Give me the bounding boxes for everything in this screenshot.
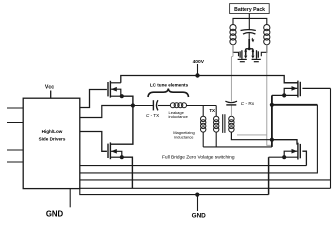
wire input stub 2 [7,122,23,124]
wire bus L1 [80,165,307,167]
node Q4 source [282,155,286,159]
svg-text:TX: TX [209,108,215,113]
transistor Q3 [272,81,300,98]
node right leg upper [270,103,274,107]
wire 400V rail [121,76,298,83]
wire input stub 1 [7,107,23,109]
battery pack box [230,4,270,14]
wire primary bottom [203,146,272,148]
node right leg lower [270,138,274,142]
wire Q2 source down to L4 [122,157,133,188]
wire battery top rail [233,18,267,25]
arrow current marker [252,38,254,42]
brace LC tune [148,89,189,97]
wire C-TX to leakage [158,105,170,107]
wire vcc stub [50,91,52,99]
node Q3 source [282,93,286,97]
svg-text:GND: GND [46,209,64,218]
inductor magnetizing [201,116,206,132]
wire rectifier center stem [248,33,250,39]
node A [131,103,135,107]
svg-text:High/Low: High/Low [42,129,63,134]
wire TX secondary top to C-Rx [230,105,232,116]
wire grey rx left column [231,44,233,101]
capacitor below right rectifier fet [252,58,261,60]
wire leakage to TX [187,105,217,107]
svg-text:GND: GND [192,213,207,220]
wire Q3 source bus [272,104,318,106]
node GND rail [195,193,199,197]
svg-text:Full Bridge Zero Volatge switc: Full Bridge Zero Volatge switching [162,155,235,161]
wire magnetizing stub [202,106,204,117]
inductor TX primary [214,116,219,132]
svg-text:LC tune elements: LC tune elements [150,83,189,88]
wire Q4 source down to rail B [268,157,270,194]
node Q2 source [120,155,124,159]
driver box [23,98,80,188]
wire TX secondary bottom [231,132,272,140]
wire input stub 4 [7,161,23,163]
inductor rectifier left coil [230,25,236,45]
wire Q2 gate [80,132,107,152]
wire grey rx bottom link [237,134,267,136]
svg-text:C - TX: C - TX [146,113,159,118]
svg-text:Side Drivers: Side Drivers [39,136,66,141]
wire bus L4 [80,187,331,189]
wire bus L3 [80,179,331,181]
wire right leg vertical [271,95,273,146]
capacitor C-TX [152,100,154,110]
svg-text:inductance: inductance [169,114,189,119]
wire node A to driver sense [80,106,133,118]
wire GND stem right [197,195,199,211]
wire magnetizing bottom [202,132,204,147]
wire GND stem left [69,189,71,208]
capacitor below left rectifier fet [238,58,247,60]
inductor TX secondary [229,116,234,132]
wire node A down to Q2 drain [110,106,132,145]
node 400V rail [195,73,199,77]
svg-text:Battery Pack: Battery Pack [234,7,265,13]
transistor Q4 [269,143,301,160]
inductor leakage [170,103,186,108]
svg-text:inductance: inductance [174,134,194,139]
wire Q3 gate [302,87,330,89]
wire rail B [80,189,269,195]
svg-text:Vcc: Vcc [45,85,54,91]
node Q1 source [120,94,124,98]
transformer core [223,114,225,133]
wire grey rx right column [267,44,272,145]
capacitor C-Rx [225,101,237,103]
wire 400V stub [197,64,199,76]
transistor rectifier right fet [249,44,267,58]
wire Q4 gate [302,151,306,165]
inductor rectifier right coil [264,25,270,45]
transistor rectifier left fet [233,44,249,58]
transistor Q1 [108,81,122,98]
wire TX primary top stub [215,106,217,117]
wire Q3 gate right vertical [330,88,332,188]
wire Q4 drain jog [272,140,297,145]
wire bus L2 [80,105,318,173]
wire TX primary bottom stub [215,132,217,147]
wire node A to C-TX [133,105,154,107]
wire Q1 gate [80,90,107,108]
svg-text:C - Rx: C - Rx [241,101,255,106]
svg-text:400V: 400V [193,59,205,65]
wire battery stem [248,14,250,30]
wire input stub 3 [7,149,23,151]
node rectifier center [248,47,251,50]
wire Q1 source to node A [122,96,133,105]
capacitor rectifier center [241,30,256,34]
transistor Q2 [108,142,122,159]
